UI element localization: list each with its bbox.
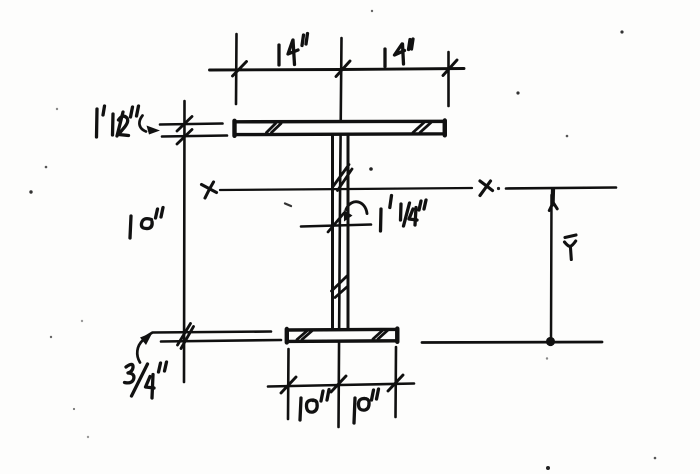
top flange — [235, 121, 445, 134]
speck below centroid — [546, 357, 548, 359]
web right line — [347, 135, 350, 330]
speck right upper — [516, 91, 519, 94]
centerline vertical — [339, 38, 342, 427]
extension line right top — [447, 52, 450, 106]
small dash left of web leader — [285, 204, 291, 207]
speck bottom left — [87, 436, 89, 438]
x axis label right — [480, 181, 493, 196]
leader arrow 1 1/4 — [346, 202, 367, 214]
label 4 inch right — [385, 39, 413, 67]
bottom extension line right — [394, 347, 397, 417]
bottom flange — [287, 329, 397, 341]
y-bar arrowhead — [549, 203, 557, 211]
speck left axis2 — [29, 190, 32, 193]
top flange hatch right — [413, 123, 431, 133]
tick on web leader — [328, 213, 344, 232]
bottom flange hatch right — [373, 330, 388, 339]
leader line top flange lower — [162, 136, 227, 137]
label 3/4 inch — [125, 362, 167, 398]
bottom extension line left — [287, 349, 290, 419]
y-bar arrow shaft thick — [550, 190, 555, 205]
speck left flange — [81, 320, 83, 322]
leader arrow 3/4 — [137, 340, 143, 363]
tick bottom right — [388, 375, 403, 391]
speck left lower — [50, 336, 52, 338]
extension line left top — [235, 34, 238, 104]
label Y-bar — [565, 235, 577, 260]
speck center — [369, 167, 373, 171]
speck right flange — [566, 135, 569, 138]
web hatch lower — [332, 276, 349, 298]
speck bottom left2 — [73, 408, 75, 410]
label 1 1/4 inch — [381, 196, 427, 232]
leader line top flange upper — [160, 124, 223, 125]
x axis line right segment — [506, 188, 616, 189]
centroid dot — [546, 337, 555, 346]
web left line — [331, 135, 334, 330]
tick bottom left — [281, 377, 296, 393]
tick left top — [233, 62, 247, 77]
label 10 inch bottom left — [300, 390, 329, 421]
speck left mid — [56, 108, 58, 110]
leader line web thickness — [301, 225, 371, 227]
baseline right — [422, 341, 602, 344]
web hatch upper — [333, 165, 352, 191]
speck top right — [620, 30, 623, 33]
tick bottom mid — [331, 376, 346, 392]
tick lower bottom-left — [181, 327, 194, 349]
y-bar arrow line — [550, 195, 553, 341]
speck bottom right — [654, 457, 657, 460]
label 10 inch height — [130, 208, 163, 239]
tick mid top — [336, 61, 350, 77]
leader arrow 1 1/2 — [139, 116, 146, 132]
bottom flange hatch left — [297, 330, 313, 340]
tick right top — [443, 60, 457, 76]
x axis label left — [202, 182, 217, 198]
speck bottom center — [546, 466, 550, 470]
x axis line — [220, 188, 472, 190]
top dimension line — [210, 69, 465, 71]
tick upper bottom-left — [178, 324, 191, 346]
dot after right x — [497, 187, 500, 190]
tick upper left — [177, 117, 192, 132]
bottom dimension line — [268, 384, 414, 387]
speck top mid — [371, 10, 373, 12]
leader line bottom flange lower — [161, 340, 281, 342]
label 4 inch left — [279, 34, 308, 66]
leader line bottom flange upper — [146, 332, 271, 337]
label 1 1/2 inch — [97, 106, 139, 137]
left extension line — [183, 101, 186, 382]
label 10 inch bottom right — [354, 389, 379, 423]
speck left axis1 — [45, 166, 48, 169]
tick lower left — [177, 130, 192, 145]
top flange hatch left — [267, 124, 282, 133]
